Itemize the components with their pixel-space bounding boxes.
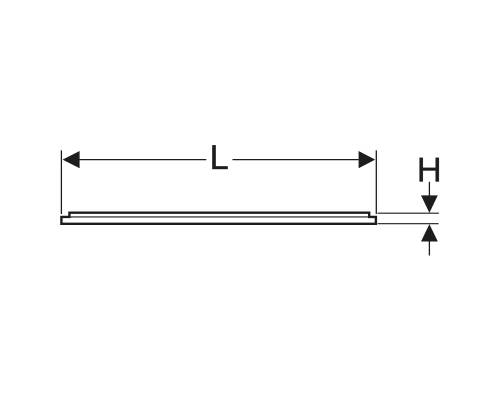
L dimension line left segment xyxy=(79,159,206,161)
L arrowhead left xyxy=(63,151,80,168)
label L xyxy=(212,145,227,169)
H leader line bottom xyxy=(428,242,430,256)
H arrowhead up xyxy=(421,224,438,241)
L extension line left xyxy=(60,150,62,214)
L arrowhead right xyxy=(359,151,376,168)
cover profile outline xyxy=(61,213,376,224)
H arrowhead down xyxy=(421,195,438,213)
L extension line right xyxy=(375,150,377,214)
label H xyxy=(420,158,439,182)
H extension line top xyxy=(378,212,439,214)
L dimension line right segment xyxy=(233,159,359,161)
H leader line top xyxy=(428,182,430,196)
profile inner edge line xyxy=(69,216,369,218)
H extension line bottom xyxy=(378,223,439,225)
